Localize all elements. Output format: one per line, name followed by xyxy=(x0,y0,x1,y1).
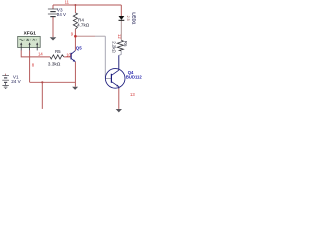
svg-text:R6: R6 xyxy=(123,41,128,47)
svg-text:R4: R4 xyxy=(78,17,84,22)
svg-text:24 V: 24 V xyxy=(11,79,21,84)
svg-text:24 V: 24 V xyxy=(57,12,66,17)
svg-text:8: 8 xyxy=(32,62,35,67)
svg-text:2.2kΩ: 2.2kΩ xyxy=(111,41,116,53)
svg-text:Q5: Q5 xyxy=(76,46,82,51)
svg-text:13: 13 xyxy=(130,92,135,97)
svg-text:9: 9 xyxy=(71,32,74,37)
svg-text:14: 14 xyxy=(38,52,43,57)
svg-text:11: 11 xyxy=(65,0,70,5)
svg-text:10: 10 xyxy=(66,52,71,57)
svg-text:3.3kΩ: 3.3kΩ xyxy=(48,61,61,67)
svg-text:XFG1: XFG1 xyxy=(24,31,37,36)
svg-text:2.5: 2.5 xyxy=(126,16,130,21)
svg-text:12: 12 xyxy=(117,34,122,39)
svg-text:R5: R5 xyxy=(55,49,61,54)
svg-text:4.7kΩ: 4.7kΩ xyxy=(77,23,90,28)
svg-text:BUD112: BUD112 xyxy=(126,75,142,80)
svg-text:LED1: LED1 xyxy=(130,12,136,25)
